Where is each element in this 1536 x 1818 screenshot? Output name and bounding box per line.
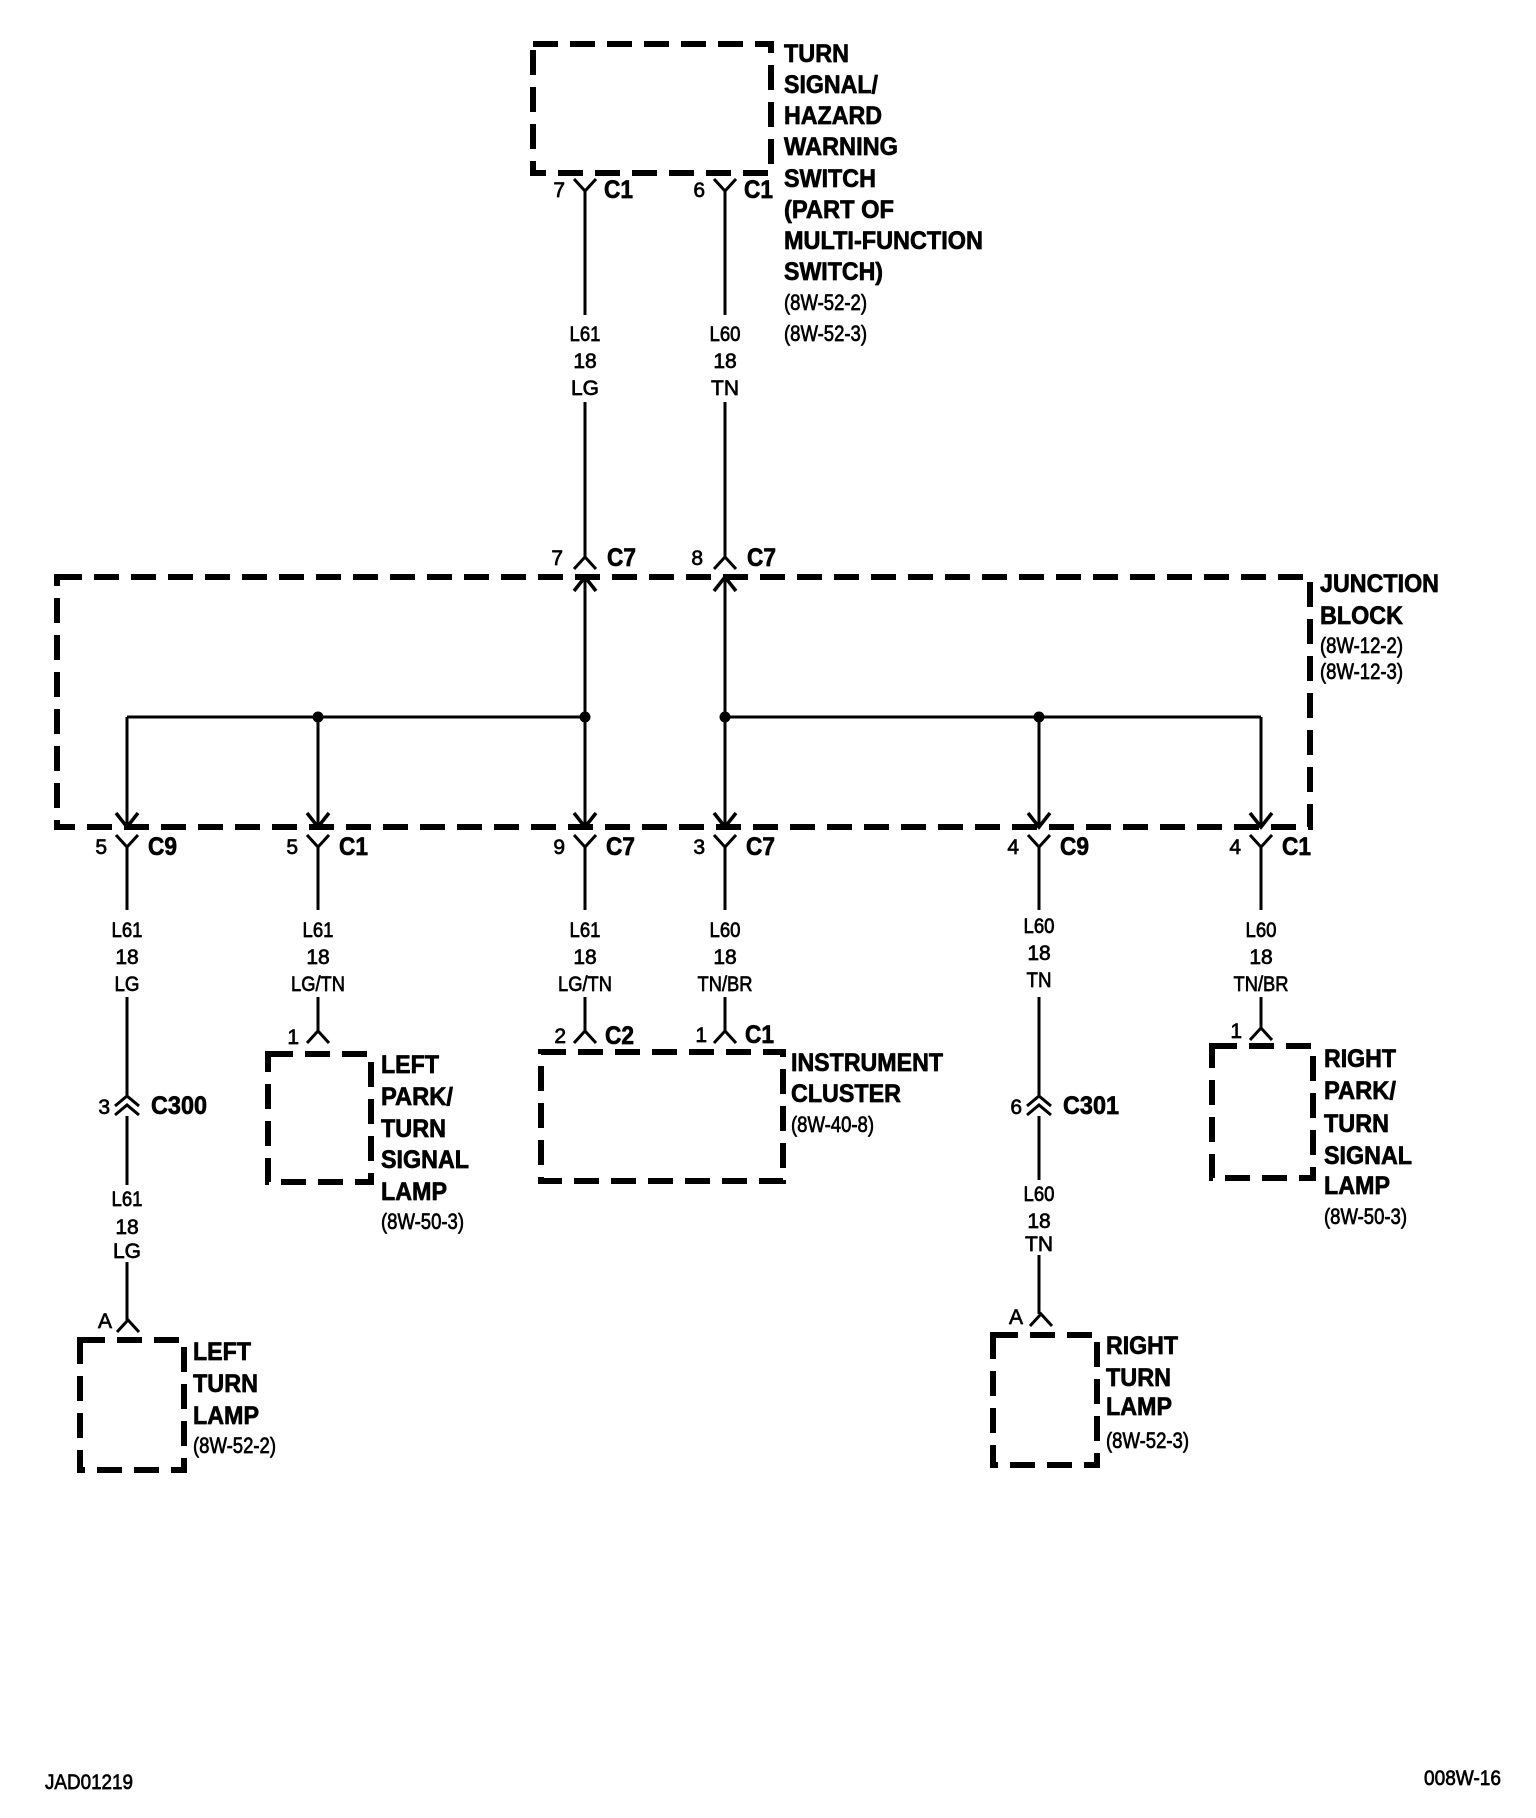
svg-text:LAMP: LAMP xyxy=(193,1402,259,1430)
svg-text:4: 4 xyxy=(1007,836,1019,859)
svg-text:C301: C301 xyxy=(1063,1092,1119,1120)
svg-text:L61: L61 xyxy=(570,323,601,346)
wire L60 below C301 xyxy=(1038,1116,1041,1180)
connector pin 1 C1 fork xyxy=(714,1031,736,1043)
svg-text:TURN: TURN xyxy=(381,1115,446,1143)
svg-text:LEFT: LEFT xyxy=(193,1338,251,1366)
svg-text:TURN: TURN xyxy=(1324,1110,1389,1138)
svg-text:C1: C1 xyxy=(339,833,368,861)
svg-text:008W-16: 008W-16 xyxy=(1424,1767,1501,1790)
svg-text:9: 9 xyxy=(553,836,565,859)
svg-text:C300: C300 xyxy=(151,1092,207,1120)
svg-text:INSTRUMENT: INSTRUMENT xyxy=(791,1049,943,1077)
svg-text:(8W-50-3): (8W-50-3) xyxy=(1324,1204,1407,1229)
connector pin 6 C1 of switch (fork) xyxy=(714,179,736,191)
svg-text:LAMP: LAMP xyxy=(381,1178,447,1206)
connector pin 2 C2 fork xyxy=(574,1031,596,1043)
svg-text:18: 18 xyxy=(713,350,736,373)
svg-text:5: 5 xyxy=(95,836,107,859)
svg-text:18: 18 xyxy=(1027,1210,1050,1233)
arrowhead out of junction block pin 3 C7 xyxy=(714,813,736,827)
svg-text:TURN: TURN xyxy=(1106,1364,1171,1392)
instrument cluster xyxy=(541,1052,783,1181)
svg-text:C1: C1 xyxy=(604,176,633,204)
svg-text:2: 2 xyxy=(554,1025,566,1048)
svg-text:3: 3 xyxy=(693,836,705,859)
svg-text:MULTI-FUNCTION: MULTI-FUNCTION xyxy=(784,227,983,255)
svg-text:JUNCTION: JUNCTION xyxy=(1320,570,1439,598)
svg-text:LG: LG xyxy=(113,1240,141,1263)
svg-text:C7: C7 xyxy=(747,544,776,572)
svg-text:7: 7 xyxy=(553,179,565,202)
arrowhead out of junction block pin 5 C9 xyxy=(116,813,138,827)
arrowhead out of junction block pin 9 C7 xyxy=(574,813,596,827)
svg-text:(8W-52-3): (8W-52-3) xyxy=(784,321,867,346)
connector pin 7 C1 of switch (fork) xyxy=(574,179,596,191)
connector pin 1 fork at right park/turn signal lamp xyxy=(1250,1028,1272,1040)
right bus wire xyxy=(725,716,1261,719)
svg-text:L60: L60 xyxy=(1246,919,1277,942)
connector pin 4 C1 fork xyxy=(1250,835,1272,847)
svg-text:WARNING: WARNING xyxy=(784,133,898,161)
svg-text:SIGNAL/: SIGNAL/ xyxy=(784,71,878,99)
junction node on right bus at C9 branch xyxy=(1034,712,1045,723)
svg-text:C2: C2 xyxy=(605,1022,634,1050)
svg-text:C9: C9 xyxy=(1060,833,1089,861)
wire stub below pin 3 C7 xyxy=(724,847,727,910)
svg-text:18: 18 xyxy=(573,946,596,969)
wire L61 to left turn lamp xyxy=(126,1262,129,1320)
svg-text:18: 18 xyxy=(713,946,736,969)
svg-text:LG: LG xyxy=(571,377,599,400)
svg-text:LG/TN: LG/TN xyxy=(558,973,612,996)
wire stub below pin 4 C9 xyxy=(1038,847,1041,910)
svg-text:C1: C1 xyxy=(745,1021,774,1049)
svg-text:5: 5 xyxy=(286,836,298,859)
svg-text:CLUSTER: CLUSTER xyxy=(791,1080,901,1108)
right park/turn signal lamp xyxy=(1212,1046,1313,1178)
svg-text:C7: C7 xyxy=(746,833,775,861)
wire L61 lower segment xyxy=(584,402,587,557)
left turn lamp xyxy=(80,1340,184,1470)
svg-text:L61: L61 xyxy=(112,1188,143,1211)
svg-text:(8W-52-2): (8W-52-2) xyxy=(784,290,867,315)
arrowhead into junction block pin 8 C7 xyxy=(714,577,736,591)
junction node right bus meets pin8 wire xyxy=(720,712,731,723)
svg-text:3: 3 xyxy=(98,1096,110,1119)
svg-text:A: A xyxy=(98,1310,112,1333)
branch wire to pin 4 C1 xyxy=(1260,717,1263,827)
svg-text:C7: C7 xyxy=(607,544,636,572)
svg-text:SIGNAL: SIGNAL xyxy=(381,1146,469,1174)
svg-text:(8W-52-3): (8W-52-3) xyxy=(1106,1428,1189,1453)
wire L60 to C301 xyxy=(1038,997,1041,1095)
wire L60 upper segment xyxy=(724,191,727,315)
svg-text:18: 18 xyxy=(115,1216,138,1239)
svg-text:18: 18 xyxy=(1249,946,1272,969)
svg-text:LG: LG xyxy=(115,973,140,996)
wire stub below pin 5 C1 xyxy=(317,847,320,910)
arrowhead out of junction block pin 4 C1 xyxy=(1250,813,1272,827)
wire L60 to instrument cluster pin 1 xyxy=(724,997,727,1031)
svg-text:4: 4 xyxy=(1229,836,1241,859)
svg-text:HAZARD: HAZARD xyxy=(784,102,882,130)
connector pin 5 C1 fork xyxy=(307,835,329,847)
svg-text:RIGHT: RIGHT xyxy=(1324,1045,1396,1073)
svg-text:18: 18 xyxy=(1027,942,1050,965)
svg-text:L61: L61 xyxy=(303,919,334,942)
svg-text:18: 18 xyxy=(573,350,596,373)
svg-text:SWITCH): SWITCH) xyxy=(784,258,883,286)
wire L61 to C300 xyxy=(126,997,129,1095)
junction node left bus meets pin7 wire xyxy=(580,712,591,723)
arrowhead out of junction block pin 4 C9 xyxy=(1028,813,1050,827)
svg-text:PARK/: PARK/ xyxy=(381,1083,453,1111)
svg-text:18: 18 xyxy=(306,946,329,969)
connector pin 4 C9 fork xyxy=(1028,835,1050,847)
wire L60 to right park/turn signal lamp xyxy=(1260,997,1263,1028)
svg-text:SIGNAL: SIGNAL xyxy=(1324,1142,1412,1170)
svg-text:TN: TN xyxy=(1025,1233,1053,1256)
svg-text:C1: C1 xyxy=(1282,833,1311,861)
wire L61 to left park/turn signal lamp xyxy=(317,997,320,1031)
svg-text:L60: L60 xyxy=(1024,915,1055,938)
left bus wire xyxy=(127,716,585,719)
wire L60 to right turn lamp xyxy=(1038,1255,1041,1314)
svg-text:TN/BR: TN/BR xyxy=(698,973,753,996)
svg-text:(8W-50-3): (8W-50-3) xyxy=(381,1209,464,1234)
junction block xyxy=(57,577,1310,827)
wire stub below pin 4 C1 xyxy=(1260,847,1263,910)
svg-text:L60: L60 xyxy=(710,323,741,346)
svg-text:TN/BR: TN/BR xyxy=(1234,973,1289,996)
svg-text:(8W-40-8): (8W-40-8) xyxy=(791,1112,874,1137)
svg-text:JAD01219: JAD01219 xyxy=(45,1771,133,1794)
connector pin 7 C7 fork xyxy=(574,557,596,569)
connector pin 9 C7 fork xyxy=(574,835,596,847)
svg-text:L60: L60 xyxy=(1024,1183,1055,1206)
wire L61 upper segment xyxy=(584,191,587,315)
wire L61 below C300 xyxy=(126,1116,129,1185)
svg-text:L61: L61 xyxy=(570,919,601,942)
svg-text:7: 7 xyxy=(551,547,563,570)
inline connector C300 xyxy=(115,1096,139,1106)
arrowhead into junction block pin 7 C7 xyxy=(574,577,596,591)
svg-text:1: 1 xyxy=(695,1024,707,1047)
svg-text:TURN: TURN xyxy=(784,40,849,68)
svg-text:TN: TN xyxy=(711,377,739,400)
svg-text:LEFT: LEFT xyxy=(381,1051,439,1079)
branch wire to pin 5 C9 xyxy=(126,717,129,827)
svg-text:PARK/: PARK/ xyxy=(1324,1077,1396,1105)
branch wire to pin 5 C1 xyxy=(317,717,320,827)
arrowhead out of junction block pin 5 C1 xyxy=(307,813,329,827)
svg-text:(PART OF: (PART OF xyxy=(784,196,894,224)
svg-text:TURN: TURN xyxy=(193,1370,258,1398)
svg-text:C9: C9 xyxy=(148,833,177,861)
connector pin 5 C9 fork xyxy=(116,835,138,847)
svg-text:(8W-12-2): (8W-12-2) xyxy=(1320,633,1403,658)
left park/turn signal lamp xyxy=(268,1054,371,1182)
svg-text:18: 18 xyxy=(115,946,138,969)
svg-text:SWITCH: SWITCH xyxy=(784,165,876,193)
wire inside junction block from pin8 down xyxy=(724,577,727,827)
svg-text:LAMP: LAMP xyxy=(1324,1172,1390,1200)
connector pin 1 fork at left park/turn signal lamp xyxy=(307,1031,329,1043)
svg-text:1: 1 xyxy=(1230,1020,1242,1043)
branch wire to pin 4 C9 xyxy=(1038,717,1041,827)
wire stub below pin 5 C9 xyxy=(126,847,129,910)
svg-text:8: 8 xyxy=(691,547,703,570)
svg-text:L60: L60 xyxy=(710,919,741,942)
junction node on left bus at C1 branch xyxy=(313,712,324,723)
svg-text:6: 6 xyxy=(693,179,705,202)
svg-text:C1: C1 xyxy=(744,176,773,204)
connector pin A fork at left turn lamp xyxy=(117,1320,139,1332)
connector pin A fork at right turn lamp xyxy=(1030,1314,1052,1326)
svg-text:(8W-12-3): (8W-12-3) xyxy=(1320,659,1403,684)
svg-text:LAMP: LAMP xyxy=(1106,1393,1172,1421)
connector pin 3 C7 fork xyxy=(714,835,736,847)
svg-text:L61: L61 xyxy=(112,919,143,942)
wire inside junction block from pin7 down xyxy=(584,577,587,827)
wire L60 lower segment xyxy=(724,402,727,557)
svg-text:A: A xyxy=(1009,1306,1023,1329)
svg-text:C7: C7 xyxy=(606,833,635,861)
turn signal/hazard warning switch (part of multi-function switch) xyxy=(533,44,771,173)
connector pin 8 C7 fork xyxy=(714,557,736,569)
wire L61 to instrument cluster pin 2 xyxy=(584,997,587,1031)
svg-text:LG/TN: LG/TN xyxy=(291,973,345,996)
svg-text:1: 1 xyxy=(287,1026,299,1049)
inline connector C301 xyxy=(1027,1096,1051,1106)
svg-text:TN: TN xyxy=(1027,969,1052,992)
right turn lamp xyxy=(993,1335,1097,1465)
wire stub below pin 9 C7 xyxy=(584,847,587,910)
svg-text:RIGHT: RIGHT xyxy=(1106,1332,1178,1360)
svg-text:6: 6 xyxy=(1010,1096,1022,1119)
svg-text:(8W-52-2): (8W-52-2) xyxy=(193,1433,276,1458)
svg-text:BLOCK: BLOCK xyxy=(1320,602,1403,630)
